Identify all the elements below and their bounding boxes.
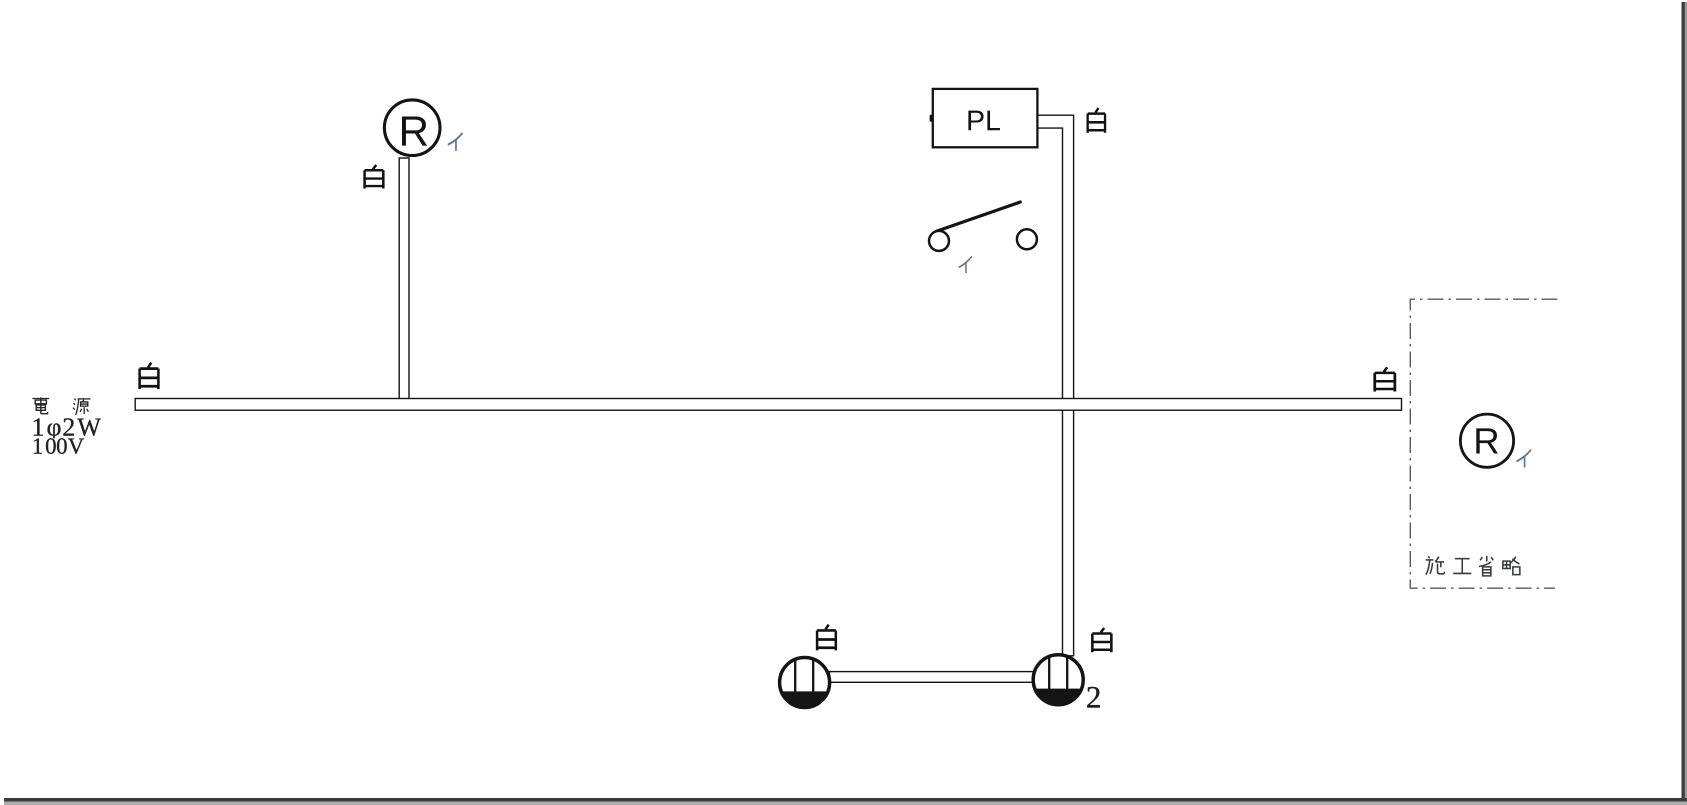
- label 白 left end of bus: [140, 363, 159, 389]
- outlet left filled bottom segment: [783, 692, 826, 706]
- scan nub on PL box left edge: [930, 115, 933, 122]
- source label V of 100V: [68, 439, 84, 454]
- label 白 right end of bus: [1375, 367, 1395, 391]
- source label W of 1φ2W: [77, 419, 101, 436]
- outlet right inner bars: [1049, 656, 1067, 690]
- lamp R2 letter R: [1476, 428, 1498, 453]
- switch イ lever: [937, 202, 1021, 231]
- switch contact right: [1017, 229, 1037, 249]
- source label 電: [32, 397, 49, 413]
- wire: vertical pair from bus down to outlet: [1063, 410, 1074, 656]
- outlet right circle: [1033, 655, 1083, 705]
- wire: horizontal pair between outlets: [830, 672, 1034, 683]
- label イ for switch: [959, 256, 972, 273]
- wire: vertical pair from lamp R1 down to bus: [399, 158, 409, 399]
- PL letter P: [968, 111, 983, 131]
- lamp R1 letter R: [402, 116, 427, 145]
- source label 源: [73, 399, 90, 415]
- note 省: [1479, 556, 1493, 576]
- outlet left inner bars: [795, 659, 813, 693]
- lamp R2 circle (omitted work): [1460, 414, 1513, 467]
- PL letter L: [987, 111, 1000, 131]
- page edge shadow bottom: [4, 798, 1687, 802]
- wire: L-shaped pair from PL box down to bus (inner run): [1037, 128, 1062, 399]
- label イ for R1: [448, 133, 463, 151]
- source label 1 of 1φ2W: [34, 418, 43, 435]
- label 2 (double outlet): [1087, 687, 1099, 708]
- dash-dot boundary box (open on right): [1410, 299, 1557, 588]
- note 工: [1453, 559, 1471, 574]
- source label 2 of 1φ2W: [63, 418, 73, 435]
- note 施: [1426, 556, 1445, 574]
- source label 1 of 100V: [34, 438, 42, 453]
- label イ for R2: [1516, 450, 1531, 468]
- note 略: [1503, 557, 1520, 575]
- wire: L-shaped pair from PL box down to bus (outer run): [1037, 115, 1073, 399]
- label 白 near R1: [365, 165, 384, 189]
- PL pilot lamp box: [933, 89, 1038, 147]
- outlet left circle: [780, 658, 830, 708]
- label 白 above left outlet: [817, 625, 836, 651]
- source label 0 of 100V: [46, 438, 56, 454]
- label 白 right of PL wires: [1088, 108, 1105, 133]
- label 白 above right outlet: [1092, 628, 1111, 652]
- lamp R1 circle: [384, 100, 440, 156]
- switch contact left: [929, 231, 949, 251]
- outlet right filled bottom segment: [1037, 690, 1080, 704]
- source label 0 of 100V (2nd): [57, 438, 67, 454]
- source label φ of 1φ2W: [48, 423, 61, 438]
- page edge shadow right: [1682, 2, 1685, 805]
- wire: horizontal bus (power line): [135, 399, 1401, 411]
